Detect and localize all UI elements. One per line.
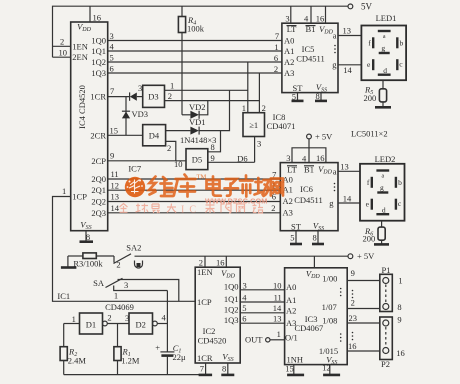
segment a [376,169,389,171]
svg-text:2: 2 [107,313,111,323]
segment e [372,59,374,70]
svg-text:1Q2: 1Q2 [91,57,106,67]
svg-text:3: 3 [138,83,142,93]
svg-text:OUT: OUT [245,335,263,345]
svg-text:1/08: 1/08 [322,316,337,326]
svg-text:D4: D4 [149,130,160,140]
ground under IC5 pin 5 ST [297,93,299,101]
svg-text:13: 13 [111,192,120,202]
svg-text:4: 4 [242,292,247,302]
svg-text:3: 3 [110,31,114,41]
svg-text:16: 16 [316,153,325,163]
svg-text:7: 7 [200,364,204,374]
char dian [207,177,221,196]
IC2 pin 2 stub from +5V rail [204,256,206,267]
svg-text:8: 8 [211,142,215,152]
svg-text:CD4511: CD4511 [296,53,325,63]
svg-text:2Q2: 2Q2 [91,197,106,207]
segment f [372,37,374,48]
wire IC3 1/00 pin 9 to P1 [347,280,380,282]
svg-text:23: 23 [349,313,358,323]
quan [120,204,128,213]
IC4 CD4520 counter box [71,22,108,231]
wire 1Q3 bus to IC5 A3 [108,72,282,74]
svg-text:R3/100k: R3/100k [73,259,103,269]
segment g [379,52,390,54]
node +5V terminal (bottom) [348,254,353,259]
svg-text:d: d [383,66,387,75]
svg-text:2: 2 [116,259,120,269]
da [167,204,176,213]
wire IC5 a pin 13 to LED1 [338,35,361,37]
svg-text:10: 10 [174,159,183,169]
svg-text:g: g [381,43,385,52]
resistor R5 200 [382,80,384,89]
char shi [240,176,253,197]
svg-text:1: 1 [170,80,174,90]
svg-text:1Q0: 1Q0 [224,282,239,292]
svg-text:1: 1 [62,186,66,196]
svg-text:O/1: O/1 [285,333,298,343]
svg-text:1: 1 [242,103,246,113]
svg-text:D6: D6 [237,153,247,163]
segment f [371,177,373,188]
svg-text:2: 2 [351,298,355,308]
wire +5V to IC6 supply pins [308,139,310,163]
wire IC2 1Q2 to IC3 A2 [240,312,284,314]
wire IC2 1Q0 to IC3 A0 [240,289,284,291]
svg-text:8: 8 [313,232,317,242]
ground under IC3 pin 12 [329,365,331,375]
svg-text:g: g [380,183,384,192]
svg-text:3: 3 [285,13,289,23]
ground under IC5 pin 8 VSS [320,93,322,101]
svg-text:4: 4 [304,13,309,23]
resistor R3 100k [68,255,83,257]
svg-text:1EN: 1EN [197,267,213,277]
gou [221,204,231,213]
svg-text:1CP: 1CP [72,192,87,202]
segment c [396,59,398,70]
svg-text:9: 9 [351,268,355,278]
svg-text:2: 2 [199,258,203,268]
wire IC8 input 2 [258,73,260,113]
svg-text:2Q1: 2Q1 [91,185,106,195]
wire 1Q0 bus to IC5 A0 [108,40,282,42]
svg-text:A0: A0 [286,282,296,292]
svg-text:VD2: VD2 [189,102,206,112]
wire IC2 1Q3 to IC3 A3 [240,322,284,324]
svg-text:CD4071: CD4071 [267,121,296,131]
svg-text:200: 200 [364,93,377,103]
svg-text:3: 3 [286,153,290,163]
ground under IC6 pin 8 VSS [317,231,319,244]
svg-text:6: 6 [110,64,114,74]
wire 2Q1 bus to IC6 A1 [108,189,281,191]
IC3 VDD stub from +5V rail [313,256,315,268]
IC5 CD4511 box [282,23,338,92]
wire 1Q1 bus to IC5 A1 [108,50,282,52]
wire SA pole 1 to oscillator output [114,286,168,291]
svg-text:13: 13 [340,162,349,172]
inverter D2 [129,313,153,334]
svg-text:CD4511: CD4511 [294,195,323,205]
resistor R6 200 [381,221,383,227]
svg-text:16: 16 [93,12,102,22]
svg-text:1Q0: 1Q0 [91,35,106,45]
switch SA2 [113,256,115,263]
svg-text:10: 10 [59,47,68,57]
wire D2 output [157,323,167,325]
gate D3 [143,85,165,107]
svg-text:8: 8 [397,302,401,312]
svg-text:TM: TM [197,174,207,181]
wire IC8 output 3 [254,137,256,163]
wire D4 output through VD1 up to D3 output 1 line [166,130,191,132]
ground under IC3 pin 15 [293,365,295,375]
svg-text:1CP: 1CP [197,297,212,307]
svg-text:b: b [398,178,402,187]
resistor R4 100k [181,6,183,16]
or-gate IC8 CD4071 [243,113,265,137]
svg-text:CD4067: CD4067 [294,323,323,333]
svg-text:A2: A2 [284,57,294,67]
wire D5 pin 9 to IC8 output [208,161,255,163]
wire bottom +5V rail [135,255,349,257]
svg-text:2: 2 [168,91,172,101]
cai [206,203,215,213]
wire IC6 a pin 13 to LED2 [338,170,360,172]
svg-text:LED1: LED1 [376,13,397,23]
wire oscillator bottom rail [64,374,206,376]
svg-text:3: 3 [257,139,261,149]
resistor R2 2.4M [63,324,65,347]
ground under IC2 pin 8 [227,363,229,375]
svg-text:IC4 CD4520: IC4 CD4520 [77,85,87,129]
svg-text:1: 1 [114,290,118,300]
svg-text:100k: 100k [187,24,205,34]
svg-text:SA2: SA2 [126,243,141,253]
svg-text:8: 8 [86,232,90,242]
svg-text:1CR: 1CR [90,92,106,102]
svg-text:16: 16 [396,348,405,358]
IC6 CD4511 box [280,163,338,231]
svg-text:1CR: 1CR [197,353,213,363]
svg-text:7: 7 [275,31,279,41]
wire 2EN pin 10 [53,56,71,58]
svg-text:7: 7 [110,86,114,96]
svg-text:3: 3 [243,280,247,290]
IC3 CD4067 box [285,268,348,365]
wire IC3 1/07 pin 2 to P1 [347,308,380,310]
segment g [377,191,388,193]
svg-text:1/07: 1/07 [322,302,337,312]
char ku [174,175,196,197]
svg-text:A0: A0 [284,35,294,45]
zhan [253,204,264,214]
svg-text:≥1: ≥1 [249,120,258,130]
wire 1CR pin 7 [108,96,130,98]
svg-text:P2: P2 [381,359,390,369]
wire 1EN pin 2 [53,45,71,47]
svg-text:13: 13 [273,314,282,324]
wire D4 output 2 down to 2CP line [166,141,176,160]
svg-text:1/00: 1/00 [322,274,337,284]
svg-text:2: 2 [60,36,64,46]
svg-text:14: 14 [343,193,352,203]
diode VD3 [125,97,127,136]
svg-text:11: 11 [274,292,282,302]
svg-text:b: b [400,38,404,47]
svg-text:ST: ST [291,221,302,231]
svg-text:8: 8 [222,364,226,374]
svg-text:12: 12 [111,180,120,190]
wire 2CP pin 9 to D5 input 10 [108,160,186,162]
wire D3 output 1 [165,89,248,91]
gate D5 [186,149,208,170]
zui [152,204,160,213]
wire D1 output to D2 input [107,323,129,325]
watermark title text (hand-drawn CJK strokes) [149,175,283,197]
wire +5V top rail [53,6,349,57]
svg-text:P1: P1 [382,265,391,275]
svg-text:1: 1 [398,275,402,285]
svg-text:13: 13 [342,25,351,35]
wire IC3 1/015 pin 16 to P2 [347,350,380,352]
svg-text:2Q3: 2Q3 [91,208,106,218]
capacitor C1 22u [160,351,174,353]
svg-text:200: 200 [363,234,376,244]
svg-text:d: d [382,206,386,215]
svg-text:a: a [381,173,384,179]
svg-text:9: 9 [397,315,401,325]
svg-text:15: 15 [110,125,119,135]
svg-text:A3: A3 [284,68,294,78]
svg-text:A1: A1 [284,46,294,56]
wire D5 pin 8 up to VD1 line [208,131,221,152]
wire IC6 g pin 14 to LED2 [338,202,360,204]
wire D1 input [64,323,80,325]
svg-text:1Q1: 1Q1 [91,46,106,56]
svg-text:IC7: IC7 [128,164,141,174]
segment d [378,73,391,75]
IC2 pin 16 stub from +5V rail [225,256,227,267]
connector P2 [380,317,393,360]
node +5V terminal (middle) [307,134,312,139]
resistor R1 1.2M [117,324,119,347]
svg-text:D1: D1 [86,319,96,329]
ground under IC4 pin 8 VSS [85,231,87,242]
svg-text:1Q2: 1Q2 [224,305,239,315]
svg-text:16: 16 [216,257,225,267]
pin 16 VDD of IC4 [89,6,91,22]
diode VD2 from R4 line to D3 output 2 [182,114,190,116]
wire 2CR pin 15 [108,134,143,136]
svg-text:2CP: 2CP [91,156,106,166]
svg-text:1Q1: 1Q1 [224,294,239,304]
svg-text:a: a [383,34,386,40]
svg-text:A2: A2 [286,306,296,316]
svg-text:a: a [333,167,337,177]
svg-text:A3: A3 [283,208,293,218]
svg-text:VD3: VD3 [132,109,149,119]
svg-text:2: 2 [167,143,171,153]
IC5 pin 16 VDD stub [325,6,327,23]
svg-text:16: 16 [348,341,357,351]
wire D3 output 2 [165,100,260,102]
svg-text:a: a [333,31,337,41]
svg-text:2CR: 2CR [90,130,106,140]
ground under IC2 pin 7 [205,363,207,375]
svg-text:VD1: VD1 [189,117,206,127]
svg-text:22μ: 22μ [173,352,187,362]
inverter D1 [80,313,103,334]
svg-text:15: 15 [285,363,294,373]
svg-text:2.4M: 2.4M [68,356,87,366]
char wei [149,177,156,195]
svg-text:A1: A1 [286,295,296,305]
svg-text:LED2: LED2 [375,154,396,164]
char wang [271,179,283,196]
svg-text:5: 5 [110,53,114,63]
svg-text:+: + [155,343,160,353]
wire oscillator feedback node [166,291,168,352]
watermark slogan text (hand-drawn strokes) [120,203,264,213]
svg-text:D3: D3 [148,91,158,101]
diode at D3 input (pointing left) [129,92,131,100]
wang2 [237,204,245,213]
wire IC8 input 1 [247,62,249,113]
watermark logo circle [125,177,145,197]
svg-text:A2: A2 [283,196,293,206]
svg-text:9: 9 [211,153,215,163]
svg-text:14: 14 [111,203,120,213]
wire 1Q2 bus to IC5 A2 [108,61,282,63]
wire IC5 g pin 14 to LED1 [338,64,361,66]
svg-text:1.2M: 1.2M [121,355,140,365]
qiu [136,204,149,213]
ground under IC6 pin 5 ST [295,231,297,244]
svg-text:D2: D2 [136,319,146,329]
svg-text:5V: 5V [361,2,373,12]
svg-text:12: 12 [322,362,331,372]
svg-text:CD4069: CD4069 [105,302,134,312]
svg-text:1Q3: 1Q3 [91,68,106,78]
node 5V terminal [348,4,353,9]
svg-text:10: 10 [273,280,282,290]
svg-text:8: 8 [316,91,320,101]
svg-text:2Q0: 2Q0 [91,174,106,184]
wire IC2 1Q1 to IC3 A1 [240,301,284,303]
wire IC3 1/08 pin 23 to P2 [347,322,380,324]
IC5 pin 3 LT stub [290,6,292,23]
svg-text:2: 2 [271,203,275,213]
svg-text:2: 2 [274,64,278,74]
svg-text:5: 5 [242,303,246,313]
char zi [225,179,239,196]
svg-text:IC: IC [181,205,201,216]
segment e [371,199,373,210]
svg-text:1Q3: 1Q3 [224,315,239,325]
svg-text:11: 11 [111,169,119,179]
wire SA contact 3 to IC2 1CP [118,280,179,302]
wire 2Q3 bus to IC6 A3 [108,212,281,214]
svg-text:14: 14 [273,303,282,313]
svg-text:IC1: IC1 [57,291,70,301]
svg-text:+ 5V: + 5V [315,131,333,141]
svg-text:SA: SA [93,278,105,288]
segment d [376,213,389,215]
svg-text:9: 9 [110,150,114,160]
svg-text:IC6: IC6 [300,184,313,194]
svg-text:2EN: 2EN [72,52,88,62]
svg-text:1: 1 [277,329,281,339]
segment a [378,30,391,32]
svg-text:1EN: 1EN [72,41,88,51]
svg-text:16: 16 [316,13,325,23]
svg-text:5: 5 [290,233,294,243]
segment c [395,199,397,210]
IC5 pin 4 B1 stub [310,6,312,23]
svg-text:3: 3 [124,280,128,290]
svg-text:+ 5V: + 5V [357,251,375,261]
char chang [255,178,270,196]
svg-text:6: 6 [242,314,246,324]
diode VD1 [190,127,199,135]
svg-text:5: 5 [292,91,296,101]
svg-text:D5: D5 [192,154,202,164]
svg-text:LC5011×2: LC5011×2 [351,128,388,138]
LED2 seven-segment display [360,164,405,221]
svg-text:CD4520: CD4520 [198,335,227,345]
svg-text:1: 1 [72,314,76,324]
LED1 seven-segment display [361,26,406,81]
segment b [396,37,398,48]
gate D4 [143,125,166,146]
svg-text:4: 4 [302,154,307,164]
wire 2Q0 bus to IC6 A0 [108,178,281,180]
segment b [395,177,397,188]
svg-text:14: 14 [343,65,352,75]
svg-text:2: 2 [262,103,266,113]
wire 1CP pin 1 of IC4 down the left side to IC2 1CP [53,197,196,302]
ground at R3 left [67,256,69,268]
svg-text:6: 6 [274,53,278,63]
wire 2Q2 bus to IC6 A2 [108,201,281,203]
IC2 CD4520 box [195,267,240,363]
svg-text:1: 1 [274,42,278,52]
